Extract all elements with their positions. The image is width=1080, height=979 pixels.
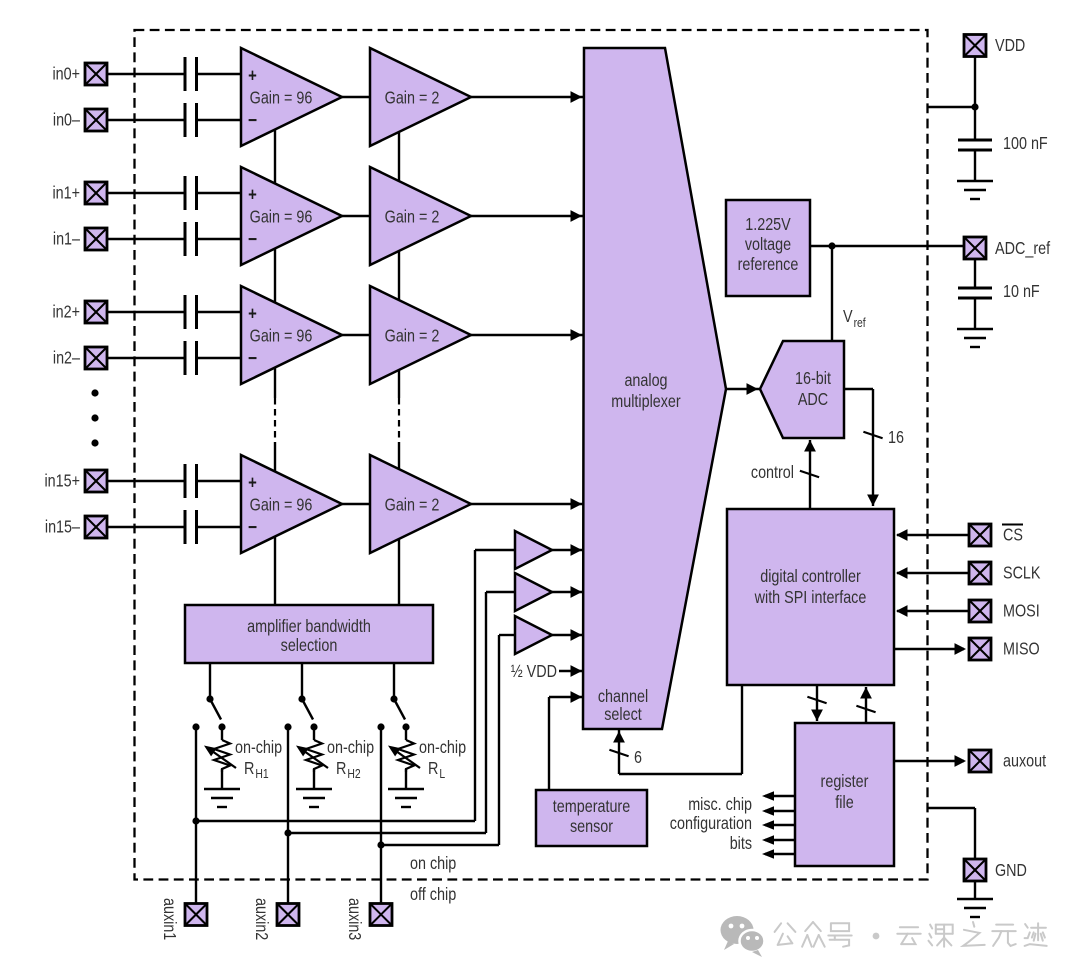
svg-text:in2+: in2+ [53, 302, 81, 322]
svg-text:ADC: ADC [798, 389, 828, 409]
svg-text:MOSI: MOSI [1003, 601, 1040, 621]
svg-text:H1: H1 [255, 767, 268, 781]
svg-text:in0+: in0+ [53, 64, 81, 84]
svg-text:Gain = 96: Gain = 96 [250, 207, 313, 227]
svg-text:Gain = 2: Gain = 2 [385, 326, 440, 346]
svg-text:Gain = 2: Gain = 2 [385, 88, 440, 108]
svg-text:−: − [248, 517, 257, 538]
svg-text:control: control [751, 462, 794, 482]
svg-text:in15–: in15– [45, 517, 80, 537]
svg-text:temperature: temperature [553, 796, 630, 816]
svg-text:auxin3: auxin3 [345, 898, 365, 940]
svg-text:reference: reference [738, 254, 799, 274]
svg-text:10 nF: 10 nF [1003, 281, 1040, 301]
svg-text:auxin2: auxin2 [252, 898, 272, 940]
svg-text:on-chip: on-chip [327, 737, 374, 757]
svg-text:digital controller: digital controller [760, 566, 861, 586]
svg-text:−: − [248, 229, 257, 250]
svg-text:−: − [248, 110, 257, 131]
svg-text:file: file [835, 792, 853, 812]
svg-text:voltage: voltage [745, 234, 791, 254]
svg-text:16-bit: 16-bit [795, 368, 831, 388]
svg-text:in0–: in0– [53, 110, 80, 130]
svg-text:Gain = 96: Gain = 96 [250, 495, 313, 515]
svg-text:ADC_ref: ADC_ref [995, 238, 1050, 258]
svg-text:sensor: sensor [570, 816, 613, 836]
svg-text:on-chip: on-chip [419, 737, 466, 757]
svg-text:+: + [248, 304, 257, 324]
svg-text:H2: H2 [347, 767, 360, 781]
svg-text:CS: CS [1003, 525, 1023, 545]
svg-text:+: + [248, 66, 257, 86]
svg-text:16: 16 [888, 427, 904, 447]
svg-text:V: V [843, 306, 853, 326]
svg-text:R: R [244, 758, 254, 778]
svg-text:6: 6 [634, 747, 642, 767]
svg-text:+: + [248, 185, 257, 205]
svg-text:1.225V: 1.225V [745, 214, 791, 234]
svg-text:−: − [248, 348, 257, 369]
svg-text:with SPI interface: with SPI interface [754, 587, 867, 607]
svg-text:amplifier bandwidth: amplifier bandwidth [247, 616, 371, 636]
svg-text:R: R [336, 758, 346, 778]
svg-text:auxout: auxout [1003, 751, 1046, 771]
svg-text:ref: ref [854, 316, 867, 330]
svg-text:analog: analog [624, 370, 667, 390]
svg-text:multiplexer: multiplexer [611, 391, 681, 411]
svg-text:+: + [248, 473, 257, 493]
svg-text:in15+: in15+ [45, 471, 81, 491]
svg-text:100 nF: 100 nF [1003, 133, 1048, 153]
svg-text:in1+: in1+ [53, 183, 81, 203]
svg-text:R: R [428, 758, 438, 778]
svg-text:selection: selection [281, 635, 338, 655]
svg-text:L: L [439, 767, 445, 781]
svg-text:channel: channel [598, 686, 648, 706]
svg-text:MISO: MISO [1003, 639, 1040, 659]
svg-text:GND: GND [995, 860, 1027, 880]
svg-text:register: register [821, 771, 869, 791]
svg-text:select: select [604, 704, 642, 724]
svg-text:½ VDD: ½ VDD [511, 661, 557, 681]
svg-text:configuration: configuration [670, 813, 752, 833]
svg-text:Gain = 96: Gain = 96 [250, 326, 313, 346]
svg-text:off chip: off chip [410, 884, 456, 904]
svg-text:Gain = 2: Gain = 2 [385, 495, 440, 515]
svg-text:SCLK: SCLK [1003, 563, 1041, 583]
svg-text:VDD: VDD [995, 35, 1025, 55]
svg-text:on-chip: on-chip [235, 737, 282, 757]
svg-text:Gain = 2: Gain = 2 [385, 207, 440, 227]
svg-text:bits: bits [730, 833, 753, 853]
svg-text:on chip: on chip [410, 853, 456, 873]
svg-text:misc. chip: misc. chip [688, 794, 752, 814]
svg-text:auxin1: auxin1 [160, 898, 180, 940]
svg-text:in1–: in1– [53, 229, 80, 249]
svg-text:Gain = 96: Gain = 96 [250, 88, 313, 108]
svg-text:in2–: in2– [53, 348, 80, 368]
